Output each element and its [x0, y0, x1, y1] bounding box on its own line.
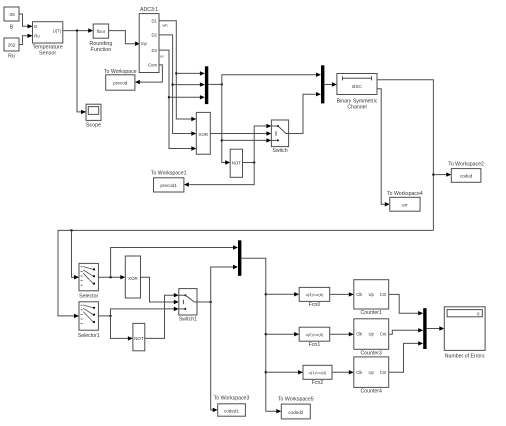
svg-text:BSC: BSC	[352, 84, 362, 89]
svg-text:Fcn2: Fcn2	[312, 380, 324, 386]
svg-text:To Workspace5: To Workspace5	[278, 397, 314, 403]
svg-text:Counter1: Counter1	[361, 310, 382, 316]
svg-text:precod1: precod1	[160, 183, 177, 188]
svg-text:B: B	[34, 24, 37, 29]
svg-text:To Workspace: To Workspace	[104, 69, 137, 75]
svg-text:Inp: Inp	[141, 41, 147, 46]
svg-text:Cnt: Cnt	[380, 332, 387, 337]
svg-text:Switch1: Switch1	[179, 316, 197, 322]
svg-text:D3: D3	[151, 48, 157, 53]
svg-text:err: err	[402, 202, 408, 207]
svg-text:Sensor: Sensor	[39, 51, 56, 57]
svg-text:Ru: Ru	[8, 54, 15, 60]
svg-text:u(3)!=u(6): u(3)!=u(6)	[306, 292, 324, 297]
svg-text:XOR: XOR	[128, 276, 138, 281]
svg-text:Number of Errors: Number of Errors	[445, 353, 485, 359]
svg-text:XOR: XOR	[199, 132, 209, 137]
svg-text:Fcn1: Fcn1	[309, 342, 321, 348]
svg-text:wh: wh	[162, 22, 167, 27]
svg-text:Ru: Ru	[34, 34, 40, 39]
svg-text:Binary Symmetric: Binary Symmetric	[337, 98, 378, 104]
svg-text:coded: coded	[460, 174, 473, 179]
svg-text:Channel: Channel	[347, 105, 366, 111]
svg-text:D1: D1	[151, 19, 157, 24]
svg-text:Switch: Switch	[272, 148, 287, 154]
svg-text:Counter3: Counter3	[361, 351, 382, 357]
svg-text:NOT: NOT	[232, 161, 242, 166]
svg-text:-26: -26	[8, 12, 15, 17]
svg-text:Up: Up	[369, 370, 375, 375]
svg-text:precod: precod	[113, 81, 127, 86]
svg-text:Temperature: Temperature	[32, 44, 62, 50]
svg-text:Up: Up	[369, 332, 375, 337]
svg-text:coded1: coded1	[224, 409, 240, 414]
svg-text:To Workspace2: To Workspace2	[448, 161, 484, 167]
svg-text:B: B	[10, 25, 14, 31]
svg-text:To Workspace3: To Workspace3	[214, 396, 250, 402]
svg-text:Clk: Clk	[356, 370, 363, 375]
svg-text:coded2: coded2	[288, 410, 304, 415]
svg-text:NOT: NOT	[134, 336, 144, 341]
svg-text:Fcn0: Fcn0	[309, 302, 321, 308]
svg-text:To Workspace1: To Workspace1	[151, 171, 187, 177]
svg-text:Function: Function	[91, 47, 112, 53]
svg-text:Counter4: Counter4	[361, 389, 382, 395]
svg-text:ADC3:1: ADC3:1	[140, 7, 158, 13]
svg-text:Selector1: Selector1	[78, 333, 100, 339]
svg-text:Selector: Selector	[79, 293, 98, 299]
svg-text:floor: floor	[97, 29, 106, 34]
svg-text:To Workspace4: To Workspace4	[387, 191, 423, 197]
svg-text:u(2)!=u(5): u(2)!=u(5)	[306, 332, 324, 337]
svg-text:262: 262	[8, 43, 16, 48]
svg-text:Clk: Clk	[356, 332, 363, 337]
svg-text:Scope: Scope	[86, 123, 101, 129]
svg-text:Up: Up	[369, 292, 375, 297]
svg-text:U(T): U(T)	[53, 28, 62, 33]
svg-text:Clk: Clk	[356, 292, 363, 297]
svg-text:Rounding: Rounding	[89, 41, 112, 47]
svg-text:Com: Com	[148, 63, 157, 68]
svg-text:D2: D2	[151, 33, 157, 38]
svg-text:u(1)!=u(4): u(1)!=u(4)	[309, 370, 327, 375]
svg-text:Cnt: Cnt	[380, 292, 387, 297]
svg-text:Cnt: Cnt	[380, 370, 387, 375]
